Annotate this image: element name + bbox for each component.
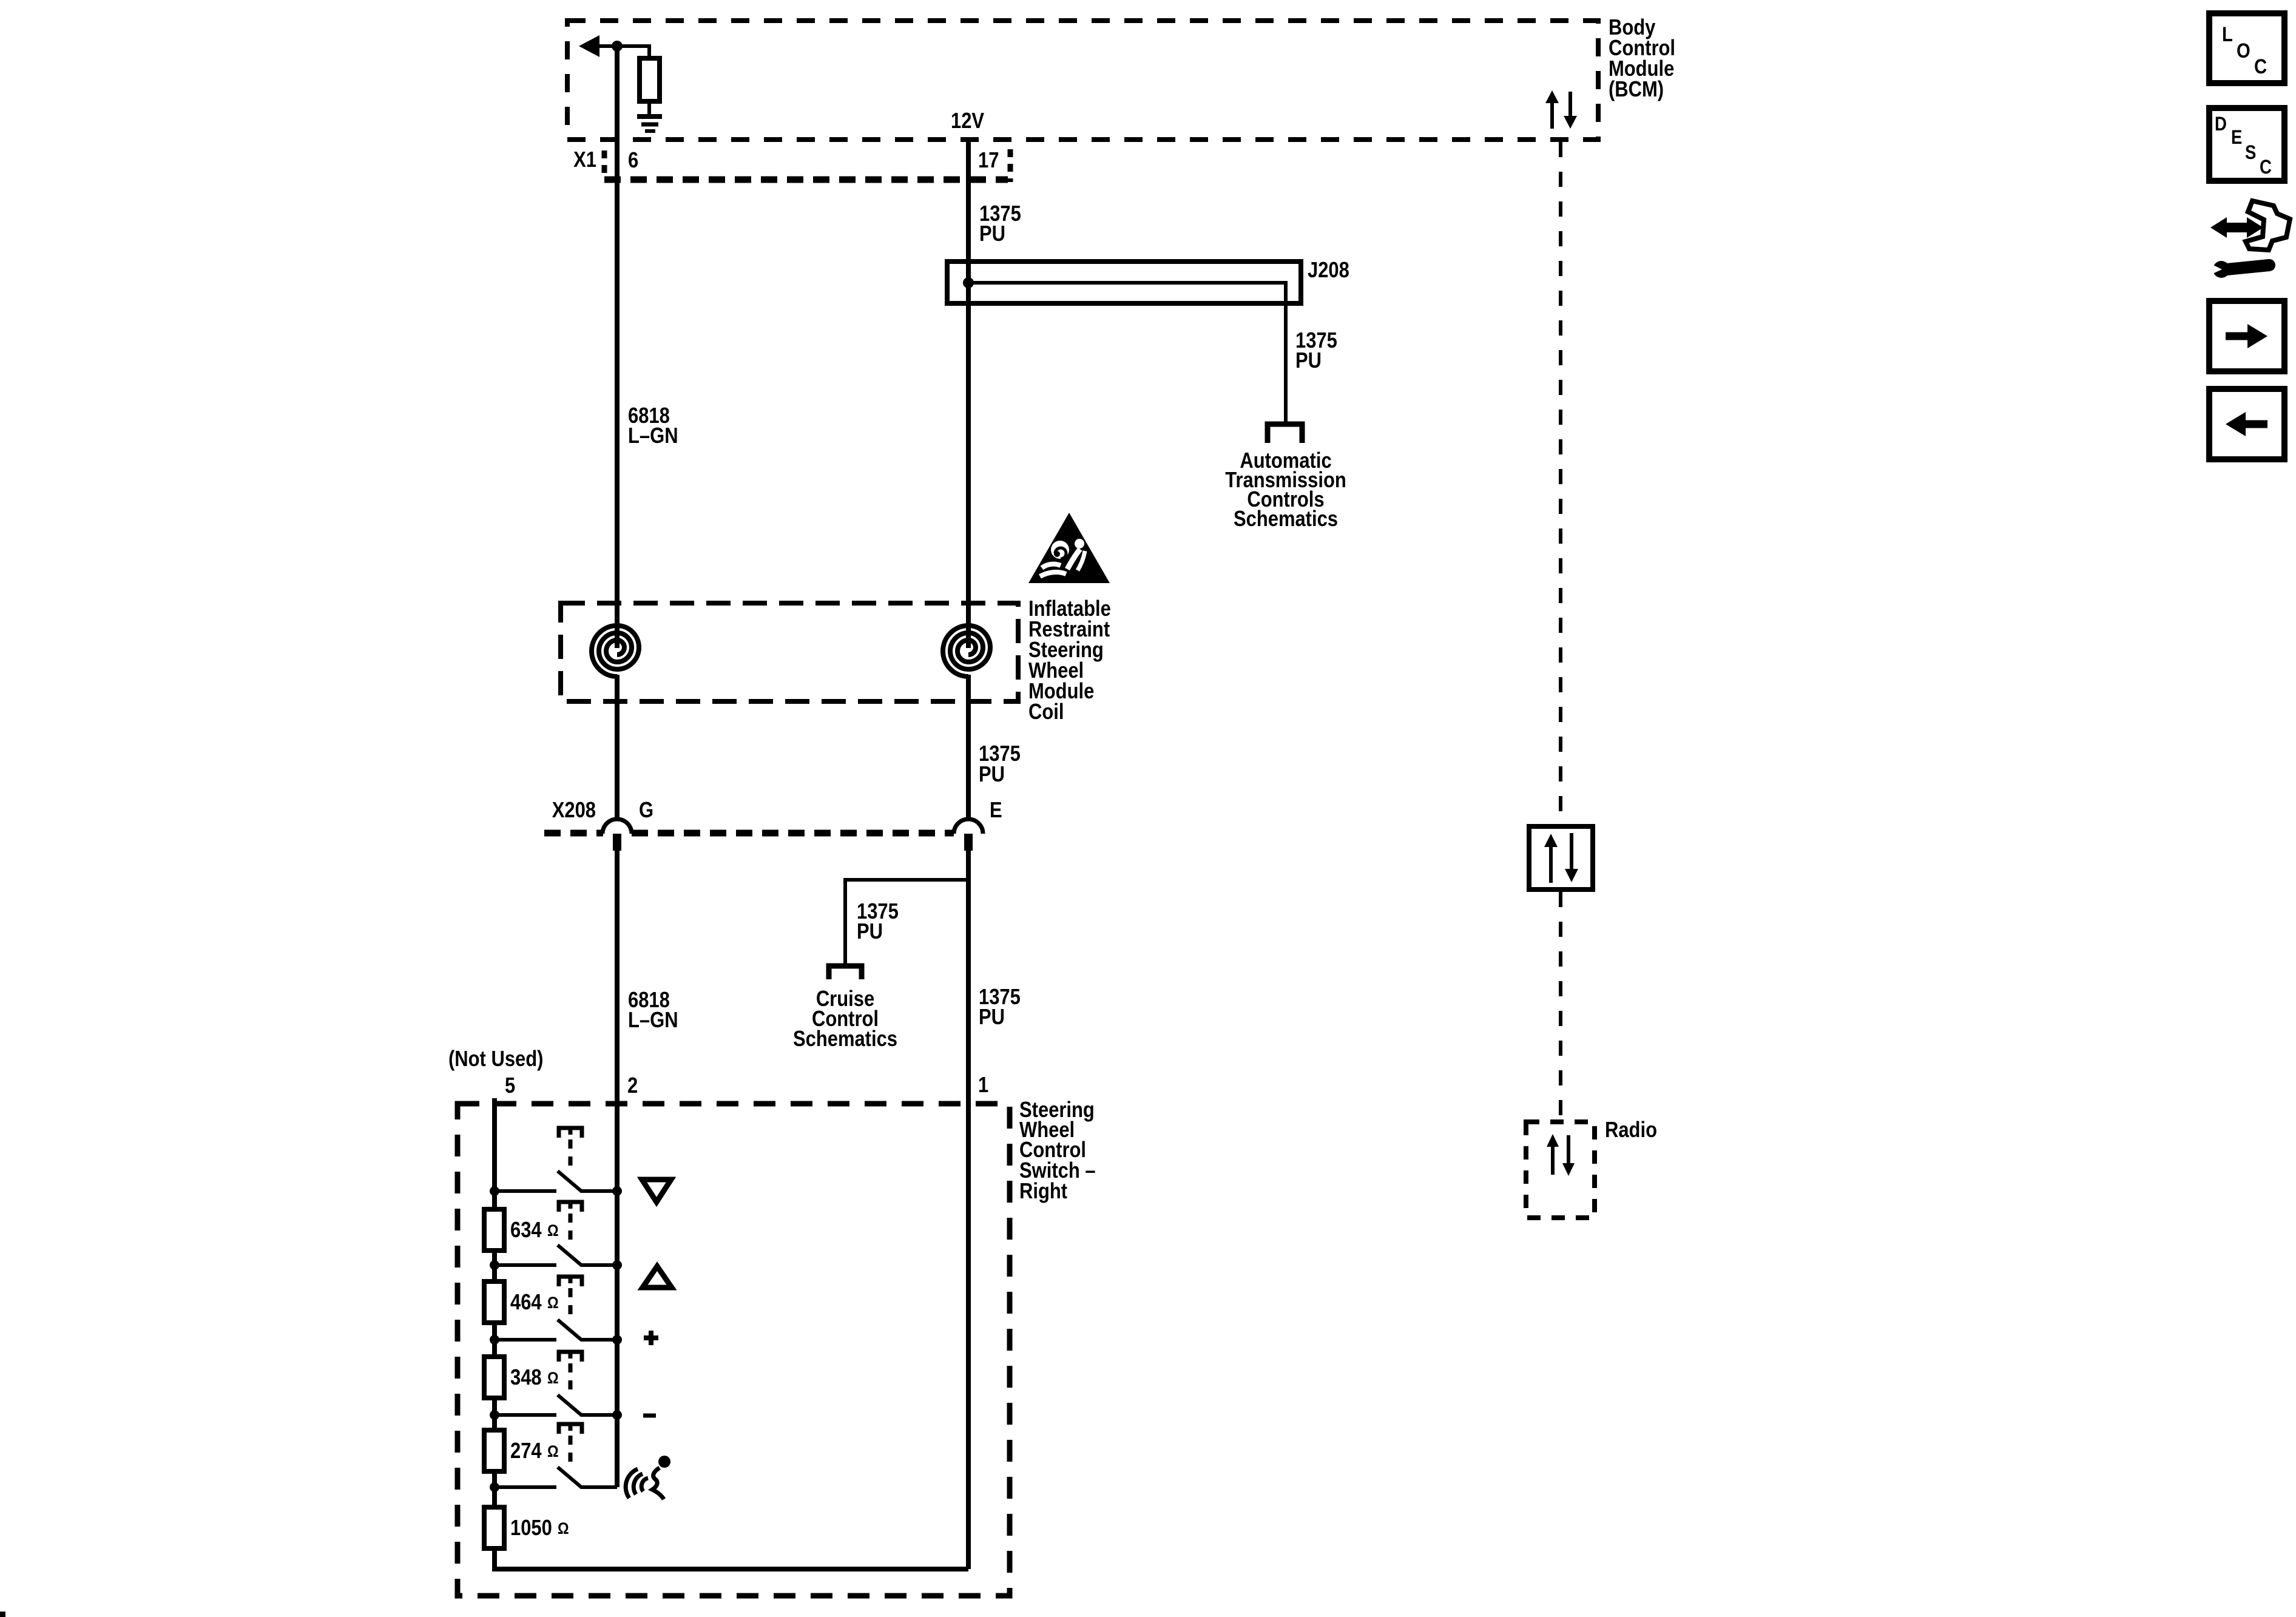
wire resistor to ground <box>647 101 651 116</box>
svg-text:12V: 12V <box>951 109 985 133</box>
connector fork to Cruise Control Schematics <box>829 966 862 979</box>
wire left below coil <box>615 675 620 820</box>
svg-text:Ω: Ω <box>547 1294 559 1312</box>
switch S4 actuator bracket <box>559 1352 582 1362</box>
switch S3 actuator bracket <box>559 1277 582 1286</box>
wire rung 5 <box>495 1485 556 1489</box>
node dot rail rung 5 <box>490 1482 499 1492</box>
svg-text:S: S <box>2245 142 2256 163</box>
icon seek down triangle <box>642 1180 671 1202</box>
label 348 ohm <box>510 1366 559 1390</box>
wire 1375 PU from BCM pin 17 <box>966 140 971 648</box>
connector X208 terminal G arc <box>603 819 632 834</box>
node dot rail rung 1 <box>490 1186 499 1196</box>
svg-text:Ω: Ω <box>558 1519 569 1538</box>
svg-text:Radio: Radio <box>1605 1118 1657 1143</box>
sidebar harness repair icon <box>2207 201 2290 278</box>
svg-text:PU: PU <box>979 763 1005 787</box>
connector X208 dotted line <box>544 830 954 837</box>
wire splice branch inside J208 and down <box>968 283 1286 426</box>
wire switch box bottom <box>492 1567 968 1571</box>
svg-text:PU: PU <box>1295 349 1322 373</box>
icon volume plus <box>644 1331 658 1345</box>
switch S1 actuator bracket <box>559 1128 582 1138</box>
svg-text:5: 5 <box>505 1074 515 1098</box>
svg-text:Coil: Coil <box>1028 700 1064 724</box>
svg-text:O: O <box>2237 39 2250 62</box>
wire branch to cruise control <box>845 880 968 967</box>
label Automatic Transmission Controls Schematics <box>1225 449 1346 532</box>
connector X1 dotted line <box>604 149 1010 182</box>
svg-text:L–GN: L–GN <box>628 424 678 448</box>
resistor 1050 ohm <box>484 1507 504 1548</box>
svg-text:17: 17 <box>978 149 999 173</box>
wire right X208 to switch pin 1 <box>966 849 971 1569</box>
wire right below coil <box>966 675 971 820</box>
svg-text:G: G <box>639 798 653 823</box>
svg-text:348: 348 <box>510 1366 542 1390</box>
connector fork to Automatic Transmission Controls Schematics <box>1268 424 1302 443</box>
svg-text:PU: PU <box>979 1005 1005 1030</box>
icon voice recognition <box>626 1456 670 1499</box>
node dot rail rung 3 <box>490 1335 499 1345</box>
label wire 1375 PU (above X208 pin E) <box>979 742 1021 787</box>
serial data link arrows <box>1544 833 1578 883</box>
label 464 ohm <box>510 1291 559 1315</box>
label Body Control Module (BCM) <box>1609 16 1675 102</box>
svg-text:274: 274 <box>510 1439 542 1463</box>
switch S4 actuator dashed link <box>569 1363 573 1394</box>
switch S2 actuator dashed link <box>569 1214 573 1244</box>
radio serial data arrows <box>1547 1134 1575 1176</box>
label wire 1375 PU (above pin 1) <box>979 985 1021 1030</box>
node junction dot BCM internal <box>612 41 623 52</box>
switch S3 actuator dashed link <box>569 1288 573 1318</box>
resistor BCM internal pull-up <box>640 58 660 101</box>
coil L1 (left clockspring spiral) <box>592 626 639 677</box>
label 274 ohm <box>510 1439 559 1463</box>
svg-text:Right: Right <box>1019 1180 1067 1204</box>
label wire 1375 PU (cruise branch) <box>857 900 899 944</box>
svg-text:C: C <box>2260 157 2272 178</box>
node dot rail rung 2 <box>490 1260 499 1270</box>
svg-text:PU: PU <box>857 920 883 944</box>
coil L2 (right clockspring spiral) <box>943 626 990 677</box>
switch S5 actuator dashed link <box>569 1436 573 1466</box>
svg-text:E: E <box>990 798 1002 823</box>
label wire 1375 PU (J208 branch) <box>1295 329 1337 373</box>
sidebar LOC box <box>2209 13 2284 83</box>
svg-text:J208: J208 <box>1308 258 1349 283</box>
svg-text:X208: X208 <box>552 798 596 823</box>
switch S5 blade <box>558 1467 617 1487</box>
arrow signal out (BCM internal, pointing left) <box>579 35 649 59</box>
svg-text:2: 2 <box>627 1074 638 1098</box>
connector X208 terminal E arc <box>954 819 983 834</box>
warning triangle SRS symbol <box>1028 513 1110 583</box>
label wire 6818 L-GN (upper) <box>628 404 678 448</box>
wire rung 4 <box>495 1413 556 1417</box>
node dot common rung 2 <box>612 1260 622 1270</box>
svg-text:1050: 1050 <box>510 1516 552 1541</box>
switch S4 blade <box>558 1395 615 1415</box>
ground G1 (BCM internal) <box>637 116 662 131</box>
switch S5 actuator bracket <box>559 1424 582 1434</box>
sidebar prev-page arrow box <box>2209 389 2284 459</box>
sidebar next-page arrow box <box>2209 301 2284 371</box>
wire 6818 L-GN from BCM pin 6 <box>615 46 620 648</box>
resistor 634 ohm <box>484 1209 504 1251</box>
splice J208 box <box>947 262 1301 303</box>
svg-text:PU: PU <box>979 222 1005 246</box>
svg-text:1: 1 <box>978 1073 988 1098</box>
switch S1 actuator dashed link <box>569 1139 573 1170</box>
svg-text:Schematics: Schematics <box>1234 507 1338 532</box>
switch S2 actuator bracket <box>559 1202 582 1212</box>
switch S2 blade <box>558 1245 615 1265</box>
icon volume minus <box>643 1414 656 1418</box>
wire pin 5 rail (resistor ladder) <box>492 1098 497 1569</box>
connector X208 terminal G pin <box>613 834 621 851</box>
node dot rail rung 4 <box>490 1410 499 1420</box>
svg-text:Ω: Ω <box>547 1442 559 1460</box>
svg-text:L–GN: L–GN <box>628 1008 678 1033</box>
resistor 348 ohm <box>484 1357 504 1398</box>
wire left X208 to switch <box>615 849 620 1487</box>
svg-text:6: 6 <box>628 149 638 173</box>
svg-text:464: 464 <box>510 1291 542 1315</box>
label Steering Wheel Control Switch - Right <box>1019 1098 1096 1204</box>
svg-text:E: E <box>2231 127 2242 148</box>
label 634 ohm <box>510 1218 559 1243</box>
sidebar DESC box <box>2209 108 2284 181</box>
label Cruise Control Schematics <box>793 987 897 1052</box>
wire rung 2 <box>495 1263 556 1267</box>
label wire 6818 L-GN (lower) <box>628 988 678 1033</box>
module box Inflatable Restraint Steering Wheel Module Coil dashed outline <box>561 603 1018 701</box>
svg-text:D: D <box>2215 113 2227 135</box>
resistor 274 ohm <box>484 1430 504 1471</box>
svg-text:(BCM): (BCM) <box>1609 78 1664 102</box>
svg-text:L: L <box>2222 22 2233 46</box>
resistor 464 ohm <box>484 1281 504 1323</box>
svg-text:X1: X1 <box>573 148 596 172</box>
switch S3 blade <box>558 1320 615 1340</box>
svg-text:(Not Used): (Not Used) <box>448 1047 543 1072</box>
module box U1 Body Control Module (BCM) dashed outline <box>567 21 1598 140</box>
svg-text:Ω: Ω <box>547 1369 559 1387</box>
serial data link box <box>1529 826 1593 890</box>
node dot common rung 4 <box>612 1410 622 1420</box>
label wire 1375 PU (below pin 17) <box>979 202 1021 246</box>
svg-text:C: C <box>2254 55 2267 78</box>
wire rung 1 <box>495 1189 556 1193</box>
serial data arrows inside BCM <box>1545 90 1577 129</box>
connector X208 terminal E pin <box>964 834 973 851</box>
stray period mark bottom-left <box>0 1612 5 1617</box>
icon seek up triangle <box>643 1266 672 1288</box>
wire rung 3 <box>495 1338 556 1342</box>
svg-text:634: 634 <box>510 1218 542 1243</box>
label 1050 ohm <box>510 1516 569 1541</box>
label Inflatable Restraint Steering Wheel Module Coil <box>1028 597 1111 724</box>
svg-text:Schematics: Schematics <box>793 1027 897 1052</box>
svg-text:Ω: Ω <box>547 1221 559 1240</box>
module box Radio dashed outline <box>1526 1122 1595 1218</box>
dashed serial data line BCM to radio <box>1559 142 1562 1119</box>
node dot common rung 1 <box>612 1186 622 1196</box>
module box Steering Wheel Control Switch Right dashed outline <box>458 1104 1010 1596</box>
node dot common rung 3 <box>612 1335 622 1345</box>
node junction dot J208 <box>963 277 974 288</box>
switch S1 blade <box>558 1171 615 1191</box>
